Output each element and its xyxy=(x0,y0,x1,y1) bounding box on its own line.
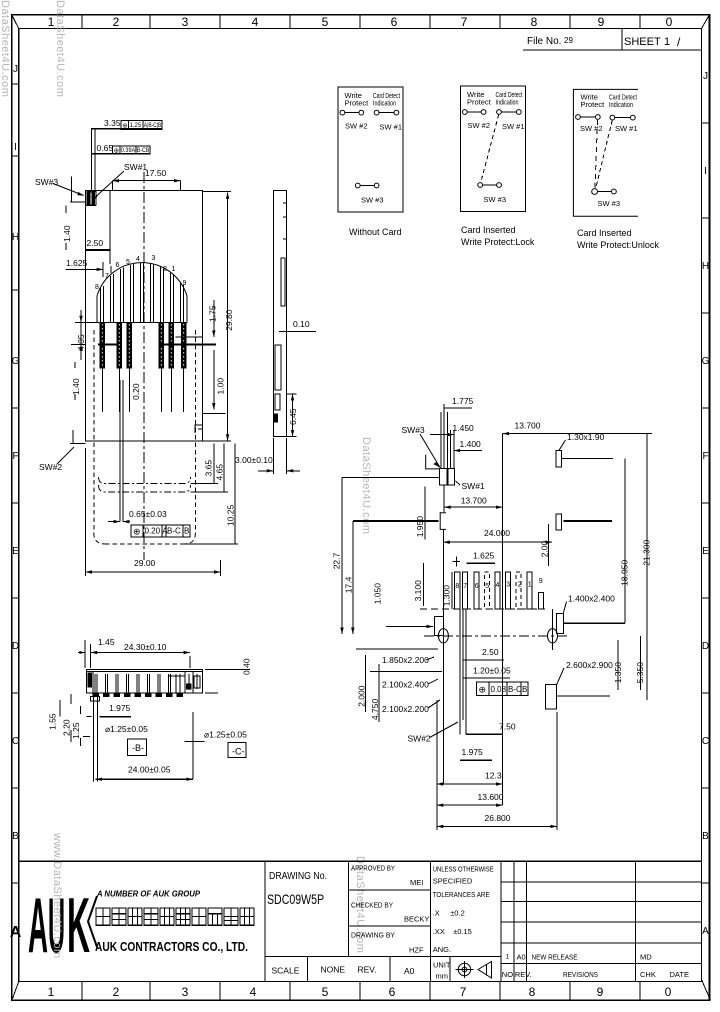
sw2 contacts d2 xyxy=(462,110,467,115)
pin solder tails xyxy=(100,323,186,368)
svg-text:2.20: 2.20 xyxy=(62,719,72,736)
svg-text:I: I xyxy=(14,142,17,153)
svg-text:SW#3: SW#3 xyxy=(402,425,425,435)
drawing by cell xyxy=(351,931,424,955)
contact pins in dome xyxy=(101,263,184,323)
dim 10.25 xyxy=(184,444,238,545)
fp dim 1.450 xyxy=(430,423,474,436)
fp sw legs down xyxy=(460,609,466,734)
svg-text:⌀1.25±0.05: ⌀1.25±0.05 xyxy=(204,730,247,740)
svg-text:SW #3: SW #3 xyxy=(361,196,384,205)
svg-text:DataSheet4U.com: DataSheet4U.com xyxy=(54,0,66,97)
svg-text:mm: mm xyxy=(436,972,449,981)
svg-text:1.25: 1.25 xyxy=(130,123,142,129)
AUK logo letters xyxy=(28,881,97,969)
svg-text:3: 3 xyxy=(182,985,189,999)
fp dim 1.050 xyxy=(372,583,433,628)
sw3 contacts d3 xyxy=(592,189,598,195)
dim 6.45 side xyxy=(287,394,298,437)
svg-text:SW #1: SW #1 xyxy=(380,123,403,132)
svg-text:3.100: 3.100 xyxy=(413,580,423,602)
svg-text:Protect: Protect xyxy=(345,99,370,108)
dim 0.40 front xyxy=(205,658,252,693)
dim 3.35 with GDT xyxy=(91,118,162,130)
svg-text:1.400: 1.400 xyxy=(460,439,482,449)
fp dim 18.950 xyxy=(620,458,630,623)
svg-text:REV.: REV. xyxy=(358,965,377,975)
svg-text:1: 1 xyxy=(48,985,55,999)
svg-text:7: 7 xyxy=(105,273,109,280)
fp dim 12.3 xyxy=(437,771,503,786)
svg-text:Card Inserted: Card Inserted xyxy=(461,225,516,235)
svg-text:CHECKED BY: CHECKED BY xyxy=(351,901,393,910)
drawing no cell xyxy=(267,870,327,907)
approved by cell xyxy=(351,864,423,888)
svg-text:4: 4 xyxy=(136,256,140,263)
fp baseline dashed xyxy=(420,608,545,610)
svg-text:24.000: 24.000 xyxy=(484,528,510,538)
svg-text:4: 4 xyxy=(496,582,500,589)
svg-text:1.400x2.400: 1.400x2.400 xyxy=(568,594,615,604)
top ruler numbers xyxy=(48,15,673,29)
svg-text:C: C xyxy=(702,736,709,747)
svg-text:SW#3: SW#3 xyxy=(35,177,58,187)
switch diagram 2 box xyxy=(461,86,535,247)
svg-text:SHEET: SHEET xyxy=(624,36,661,48)
svg-text:5: 5 xyxy=(126,259,130,266)
svg-text:2: 2 xyxy=(113,15,120,29)
svg-text:1: 1 xyxy=(172,266,176,273)
svg-text:G: G xyxy=(12,356,20,367)
svg-text:1.00: 1.00 xyxy=(216,378,226,395)
side view outline xyxy=(273,191,286,437)
fp dim 22.7 xyxy=(332,478,440,634)
svg-text:0.20: 0.20 xyxy=(145,527,161,536)
left side ticks front xyxy=(83,717,91,737)
svg-text:13.700: 13.700 xyxy=(515,421,541,431)
dim 2.20 front xyxy=(62,694,72,742)
revision table grid xyxy=(501,861,701,981)
svg-text:7: 7 xyxy=(461,15,468,29)
fp dim 1.975 xyxy=(460,747,492,760)
revision triangle mark xyxy=(504,947,512,961)
dim 29.00 xyxy=(86,448,221,576)
svg-text:1.775: 1.775 xyxy=(452,396,474,406)
svg-text:HZF: HZF xyxy=(409,946,424,955)
svg-text:D: D xyxy=(12,641,19,652)
fp dim 2.50 xyxy=(463,647,504,660)
pin ledge line xyxy=(97,321,187,323)
svg-text:9: 9 xyxy=(598,15,605,29)
svg-text:K: K xyxy=(67,881,90,969)
svg-text:G: G xyxy=(702,356,710,367)
dim 1.40 lower xyxy=(71,362,81,400)
svg-text:4: 4 xyxy=(252,15,259,29)
svg-text:1.45: 1.45 xyxy=(98,637,115,647)
front view body xyxy=(86,670,202,694)
top ruler ticks xyxy=(82,15,640,29)
svg-text:1.55: 1.55 xyxy=(47,713,57,730)
svg-text:UNIT: UNIT xyxy=(433,961,451,970)
sw1 contacts d3 xyxy=(610,115,615,120)
fp callout 1.850x2.200 xyxy=(382,655,434,665)
svg-text:J: J xyxy=(703,71,708,82)
svg-text:I: I xyxy=(704,166,707,177)
svg-text:H: H xyxy=(702,261,709,272)
revision header texts xyxy=(502,970,689,979)
front view dim 24.30±0.10 xyxy=(91,642,190,668)
svg-text:9: 9 xyxy=(539,578,543,585)
svg-text:10.25: 10.25 xyxy=(226,505,236,527)
svg-text:1.950: 1.950 xyxy=(415,516,425,538)
svg-text:NONE: NONE xyxy=(321,965,346,975)
svg-text:22.7: 22.7 xyxy=(332,552,342,569)
svg-text:Card Inserted: Card Inserted xyxy=(577,228,632,238)
dim 24.00±0.05 xyxy=(96,712,194,781)
svg-text:4: 4 xyxy=(250,985,257,999)
file no box xyxy=(523,29,702,50)
switch SW1/SW3 block xyxy=(70,177,96,206)
dome arc xyxy=(97,263,187,323)
svg-text:ANG.: ANG. xyxy=(433,945,451,954)
svg-text:www.DataSheet4U.com: www.DataSheet4U.com xyxy=(51,832,63,959)
svg-text:2: 2 xyxy=(518,582,522,589)
svg-text:B: B xyxy=(522,685,527,694)
svg-text:D: D xyxy=(702,641,709,652)
left ruler ticks xyxy=(12,84,19,883)
svg-text:6: 6 xyxy=(389,985,396,999)
bottom ruler numbers xyxy=(48,985,672,999)
svg-text:B: B xyxy=(184,527,189,536)
dim dia 1.25 B xyxy=(105,724,148,756)
svg-text:Without Card: Without Card xyxy=(349,227,402,237)
svg-text:Write Protect:Lock: Write Protect:Lock xyxy=(461,237,535,247)
svg-text:Indication: Indication xyxy=(496,98,519,107)
svg-text:17.50: 17.50 xyxy=(145,168,167,178)
svg-text:26.800: 26.800 xyxy=(485,813,511,823)
svg-text:File No.: File No. xyxy=(527,36,561,47)
svg-text:1.450: 1.450 xyxy=(453,423,475,433)
svg-text:1: 1 xyxy=(664,36,670,48)
svg-text:⌀1.25±0.05: ⌀1.25±0.05 xyxy=(105,724,148,734)
main top view body xyxy=(86,191,203,442)
svg-text:F: F xyxy=(702,451,708,462)
svg-text:SW #2: SW #2 xyxy=(468,121,491,130)
svg-text:NO.: NO. xyxy=(502,970,515,979)
svg-text:2.600x2.900: 2.600x2.900 xyxy=(566,660,613,670)
fp pad right second xyxy=(556,514,562,530)
svg-text:8: 8 xyxy=(455,583,459,590)
dim 3.65 xyxy=(191,444,219,484)
svg-text:AUK CONTRACTORS CO., LTD.: AUK CONTRACTORS CO., LTD. xyxy=(95,940,248,954)
svg-text:⊕: ⊕ xyxy=(114,147,120,154)
svg-text:1.40: 1.40 xyxy=(71,378,81,395)
sw3 contacts d1 xyxy=(355,183,360,188)
svg-text:3.65: 3.65 xyxy=(204,460,214,477)
svg-text:SW #1: SW #1 xyxy=(502,122,525,131)
first pin long tail xyxy=(90,693,99,782)
corner diagonal bottom-left xyxy=(12,982,19,1001)
fp label SW#2 xyxy=(408,722,459,744)
svg-text:1.20±0.05: 1.20±0.05 xyxy=(473,666,511,676)
svg-text:5: 5 xyxy=(322,985,329,999)
switch diagram 1 box xyxy=(338,87,403,237)
fp dim 17.4 xyxy=(344,521,439,634)
card detect actuation dashed d2 xyxy=(481,115,499,183)
svg-text:1.975: 1.975 xyxy=(109,703,131,713)
fp SW3 pad xyxy=(439,468,447,485)
svg-text:8: 8 xyxy=(529,985,536,999)
fp left ext lines xyxy=(356,649,442,672)
dim 0.20 rotated xyxy=(131,383,141,400)
svg-text:0.39A: 0.39A xyxy=(121,148,136,154)
dim 1.625 main xyxy=(66,258,111,277)
svg-text:7.50: 7.50 xyxy=(499,722,516,732)
dim 17.50 xyxy=(113,168,181,191)
svg-text:⊕: ⊕ xyxy=(122,123,128,130)
fp pads row xyxy=(455,572,544,609)
svg-text:9: 9 xyxy=(183,280,187,287)
fp datum circle B xyxy=(438,612,448,650)
svg-text:0.10: 0.10 xyxy=(293,319,310,329)
svg-text:APPROVED BY: APPROVED BY xyxy=(351,864,395,873)
svg-text:E: E xyxy=(12,546,19,557)
svg-text:5: 5 xyxy=(485,583,489,590)
fp GDT position 0.08 xyxy=(477,682,528,695)
fp dim 5.350 xyxy=(635,636,645,690)
svg-text:Write Protect:Unlock: Write Protect:Unlock xyxy=(577,240,659,250)
GDT position 0.20 A B-C B xyxy=(131,525,190,537)
fp label SW#3 xyxy=(402,425,441,468)
sw2 contacts d1 xyxy=(340,110,345,115)
svg-text:MD: MD xyxy=(640,953,652,962)
corner diagonal top-left xyxy=(12,15,19,29)
svg-text:6: 6 xyxy=(391,15,398,29)
dim 1.55 front xyxy=(47,700,60,730)
fp dim 1.950 xyxy=(415,486,446,539)
svg-text:B: B xyxy=(12,831,19,842)
sheet box xyxy=(624,35,681,49)
svg-text:E: E xyxy=(702,546,709,557)
label SW#1 xyxy=(93,162,147,199)
svg-text:1.25: 1.25 xyxy=(71,722,81,739)
svg-text:29.00: 29.00 xyxy=(134,558,156,568)
svg-text:1: 1 xyxy=(528,582,532,589)
svg-text:DATE: DATE xyxy=(670,970,689,979)
bottom ruler ticks xyxy=(82,982,640,1001)
svg-text:SW#2: SW#2 xyxy=(408,734,431,744)
fp sw pad extension lines xyxy=(441,404,454,468)
fp datum circle C xyxy=(548,609,558,650)
right ruler ticks xyxy=(702,123,710,883)
svg-text:4.65: 4.65 xyxy=(215,464,225,481)
scale row xyxy=(272,961,451,981)
svg-text:0.65±0.03: 0.65±0.03 xyxy=(129,509,167,519)
svg-text:2.00: 2.00 xyxy=(539,540,549,557)
svg-text:TOLERANCES ARE: TOLERANCES ARE xyxy=(433,890,490,899)
internal ledge right xyxy=(71,337,216,344)
front view right end detail xyxy=(168,672,200,694)
svg-text:24.00±0.05: 24.00±0.05 xyxy=(128,765,171,775)
corner diagonal top-right xyxy=(702,15,710,29)
svg-text:.XX ±0.15: .XX ±0.15 xyxy=(433,927,472,936)
fp dim 21.300 xyxy=(559,434,652,700)
right ruler letters xyxy=(702,71,710,937)
svg-text:3: 3 xyxy=(506,582,510,589)
fp centerline xyxy=(502,434,504,806)
fp dim 7.50 xyxy=(466,722,516,735)
fp dim 1.350 xyxy=(613,640,623,690)
svg-text:7: 7 xyxy=(460,985,467,999)
svg-text:SW #3: SW #3 xyxy=(598,199,621,208)
svg-text:8: 8 xyxy=(531,15,538,29)
svg-text:29.80: 29.80 xyxy=(224,309,234,331)
svg-text:F: F xyxy=(12,451,18,462)
fp dim 4.750 xyxy=(370,664,380,722)
label SW#3 xyxy=(35,177,84,196)
svg-text:13.700: 13.700 xyxy=(461,496,487,506)
svg-text:2.50: 2.50 xyxy=(87,238,104,248)
checked by cell xyxy=(351,901,429,924)
svg-text:SW#2: SW#2 xyxy=(39,462,62,472)
sw3 contacts d2 xyxy=(478,183,483,188)
fp SW1 pad xyxy=(448,468,455,485)
svg-text:J: J xyxy=(13,64,18,75)
fp callout 2.100x2.400 xyxy=(382,679,438,690)
front view dim 1.45 xyxy=(78,637,115,668)
svg-text:3: 3 xyxy=(182,15,189,29)
svg-text:0.08: 0.08 xyxy=(491,685,507,694)
svg-text:CHK: CHK xyxy=(640,970,656,979)
title block frame xyxy=(19,861,702,981)
side view inner details xyxy=(274,203,287,422)
svg-text:C: C xyxy=(12,736,19,747)
svg-text:B-CB: B-CB xyxy=(137,148,150,154)
fp dim 13.700 lower xyxy=(444,496,502,509)
svg-text:REVISIONS: REVISIONS xyxy=(563,970,598,979)
svg-text:6: 6 xyxy=(116,262,120,269)
svg-text:0.65: 0.65 xyxy=(97,143,114,153)
svg-text:1.40: 1.40 xyxy=(62,225,72,242)
svg-text:1.975: 1.975 xyxy=(462,747,484,757)
fp dim 13.700 top xyxy=(503,421,560,436)
dim 0.10 side xyxy=(279,319,316,332)
svg-text:17.4: 17.4 xyxy=(344,576,354,593)
dim 1.75 xyxy=(208,300,218,337)
svg-text:Indication: Indication xyxy=(373,99,396,108)
svg-text:1.625: 1.625 xyxy=(66,258,88,268)
dim 1.25 front xyxy=(71,706,81,746)
svg-text:SW#1: SW#1 xyxy=(462,481,485,491)
svg-text:0: 0 xyxy=(665,985,672,999)
fp dim 26.800 xyxy=(437,700,557,830)
svg-text:A: A xyxy=(10,924,22,941)
svg-text:.X ±0.2: .X ±0.2 xyxy=(433,909,465,918)
dim 2.50 xyxy=(86,191,110,265)
fp dim 24.000 xyxy=(443,528,552,544)
svg-text:1.75: 1.75 xyxy=(208,305,218,322)
svg-text:12.3: 12.3 xyxy=(485,771,502,781)
svg-text:A|B-C|B: A|B-C|B xyxy=(144,123,162,129)
svg-text:A: A xyxy=(702,926,709,937)
fp center dash-dot line xyxy=(424,635,570,637)
svg-text:0.40: 0.40 xyxy=(242,658,252,675)
fp pad numbers xyxy=(455,578,542,590)
svg-text:0.20: 0.20 xyxy=(131,383,141,400)
fp dim 1.400 xyxy=(454,439,482,452)
dim 1.975 front xyxy=(100,703,131,717)
svg-text:SCALE: SCALE xyxy=(272,966,300,976)
svg-text:A: A xyxy=(28,881,48,969)
svg-text:BECKY: BECKY xyxy=(404,915,429,924)
svg-text:Protect: Protect xyxy=(581,100,606,109)
fp dim 3.100 xyxy=(413,563,424,606)
svg-text:DataSheet4U.com: DataSheet4U.com xyxy=(0,0,11,97)
write protect actuation dashed d3 xyxy=(595,120,598,188)
card outline dashed xyxy=(94,330,196,544)
svg-text:SPECIFIED: SPECIFIED xyxy=(433,877,473,886)
svg-text:6: 6 xyxy=(475,583,479,590)
svg-text:3.35: 3.35 xyxy=(104,118,121,128)
svg-text:REV.: REV. xyxy=(515,970,532,979)
svg-text:SW #2: SW #2 xyxy=(580,124,603,133)
fp left pad B xyxy=(435,616,444,635)
svg-text:MEI: MEI xyxy=(410,878,423,887)
svg-text:SW#1: SW#1 xyxy=(124,162,147,172)
third angle projection symbol xyxy=(456,961,492,978)
front view pin feet xyxy=(93,693,182,697)
fp corner bracket left of pads xyxy=(426,455,440,469)
corner diagonal bottom-right xyxy=(702,980,711,1001)
dim 0.65 with GDT xyxy=(91,143,150,154)
dim 4.05 xyxy=(75,310,97,360)
pin numbers dome xyxy=(95,255,187,291)
sw1 contacts d2 xyxy=(497,110,502,115)
card notch lines dash-dot xyxy=(99,477,191,492)
svg-text:A0: A0 xyxy=(404,966,415,976)
svg-text:SW #2: SW #2 xyxy=(345,122,368,131)
svg-text:SW #1: SW #1 xyxy=(615,124,638,133)
tolerance cell xyxy=(433,865,494,955)
fp dim 2.000 xyxy=(357,655,367,712)
dim 1.00 xyxy=(203,350,226,414)
svg-text:7: 7 xyxy=(463,583,467,590)
svg-text:0: 0 xyxy=(666,15,673,29)
svg-text:B: B xyxy=(702,831,709,842)
sw1 contacts d1 xyxy=(374,110,379,115)
fp ext line left of pads xyxy=(443,485,445,512)
svg-text:SW #3: SW #3 xyxy=(484,195,507,204)
left ruler letters xyxy=(10,64,22,941)
svg-text:2: 2 xyxy=(113,985,120,999)
svg-text:24.30±0.10: 24.30±0.10 xyxy=(124,642,167,652)
dim 4.65 xyxy=(191,444,229,493)
svg-text:Indication: Indication xyxy=(609,100,633,109)
svg-text:Protect: Protect xyxy=(467,98,492,107)
fp dim 2.00 xyxy=(539,524,549,566)
dim 29.80 xyxy=(203,192,234,441)
card detect actuation dashed d3 xyxy=(596,120,613,188)
svg-text:9: 9 xyxy=(597,985,604,999)
switch contact wires down xyxy=(120,380,123,522)
fp right edge line upper xyxy=(563,520,612,522)
fp label SW#1 xyxy=(456,481,485,491)
svg-text:UNLESS OTHERWISE: UNLESS OTHERWISE xyxy=(433,865,494,874)
svg-text:3: 3 xyxy=(152,255,156,262)
fp dim 13.600 xyxy=(437,792,504,807)
svg-text:-C-: -C- xyxy=(232,747,245,757)
svg-text:DataSheet4U.com: DataSheet4U.com xyxy=(360,437,372,534)
